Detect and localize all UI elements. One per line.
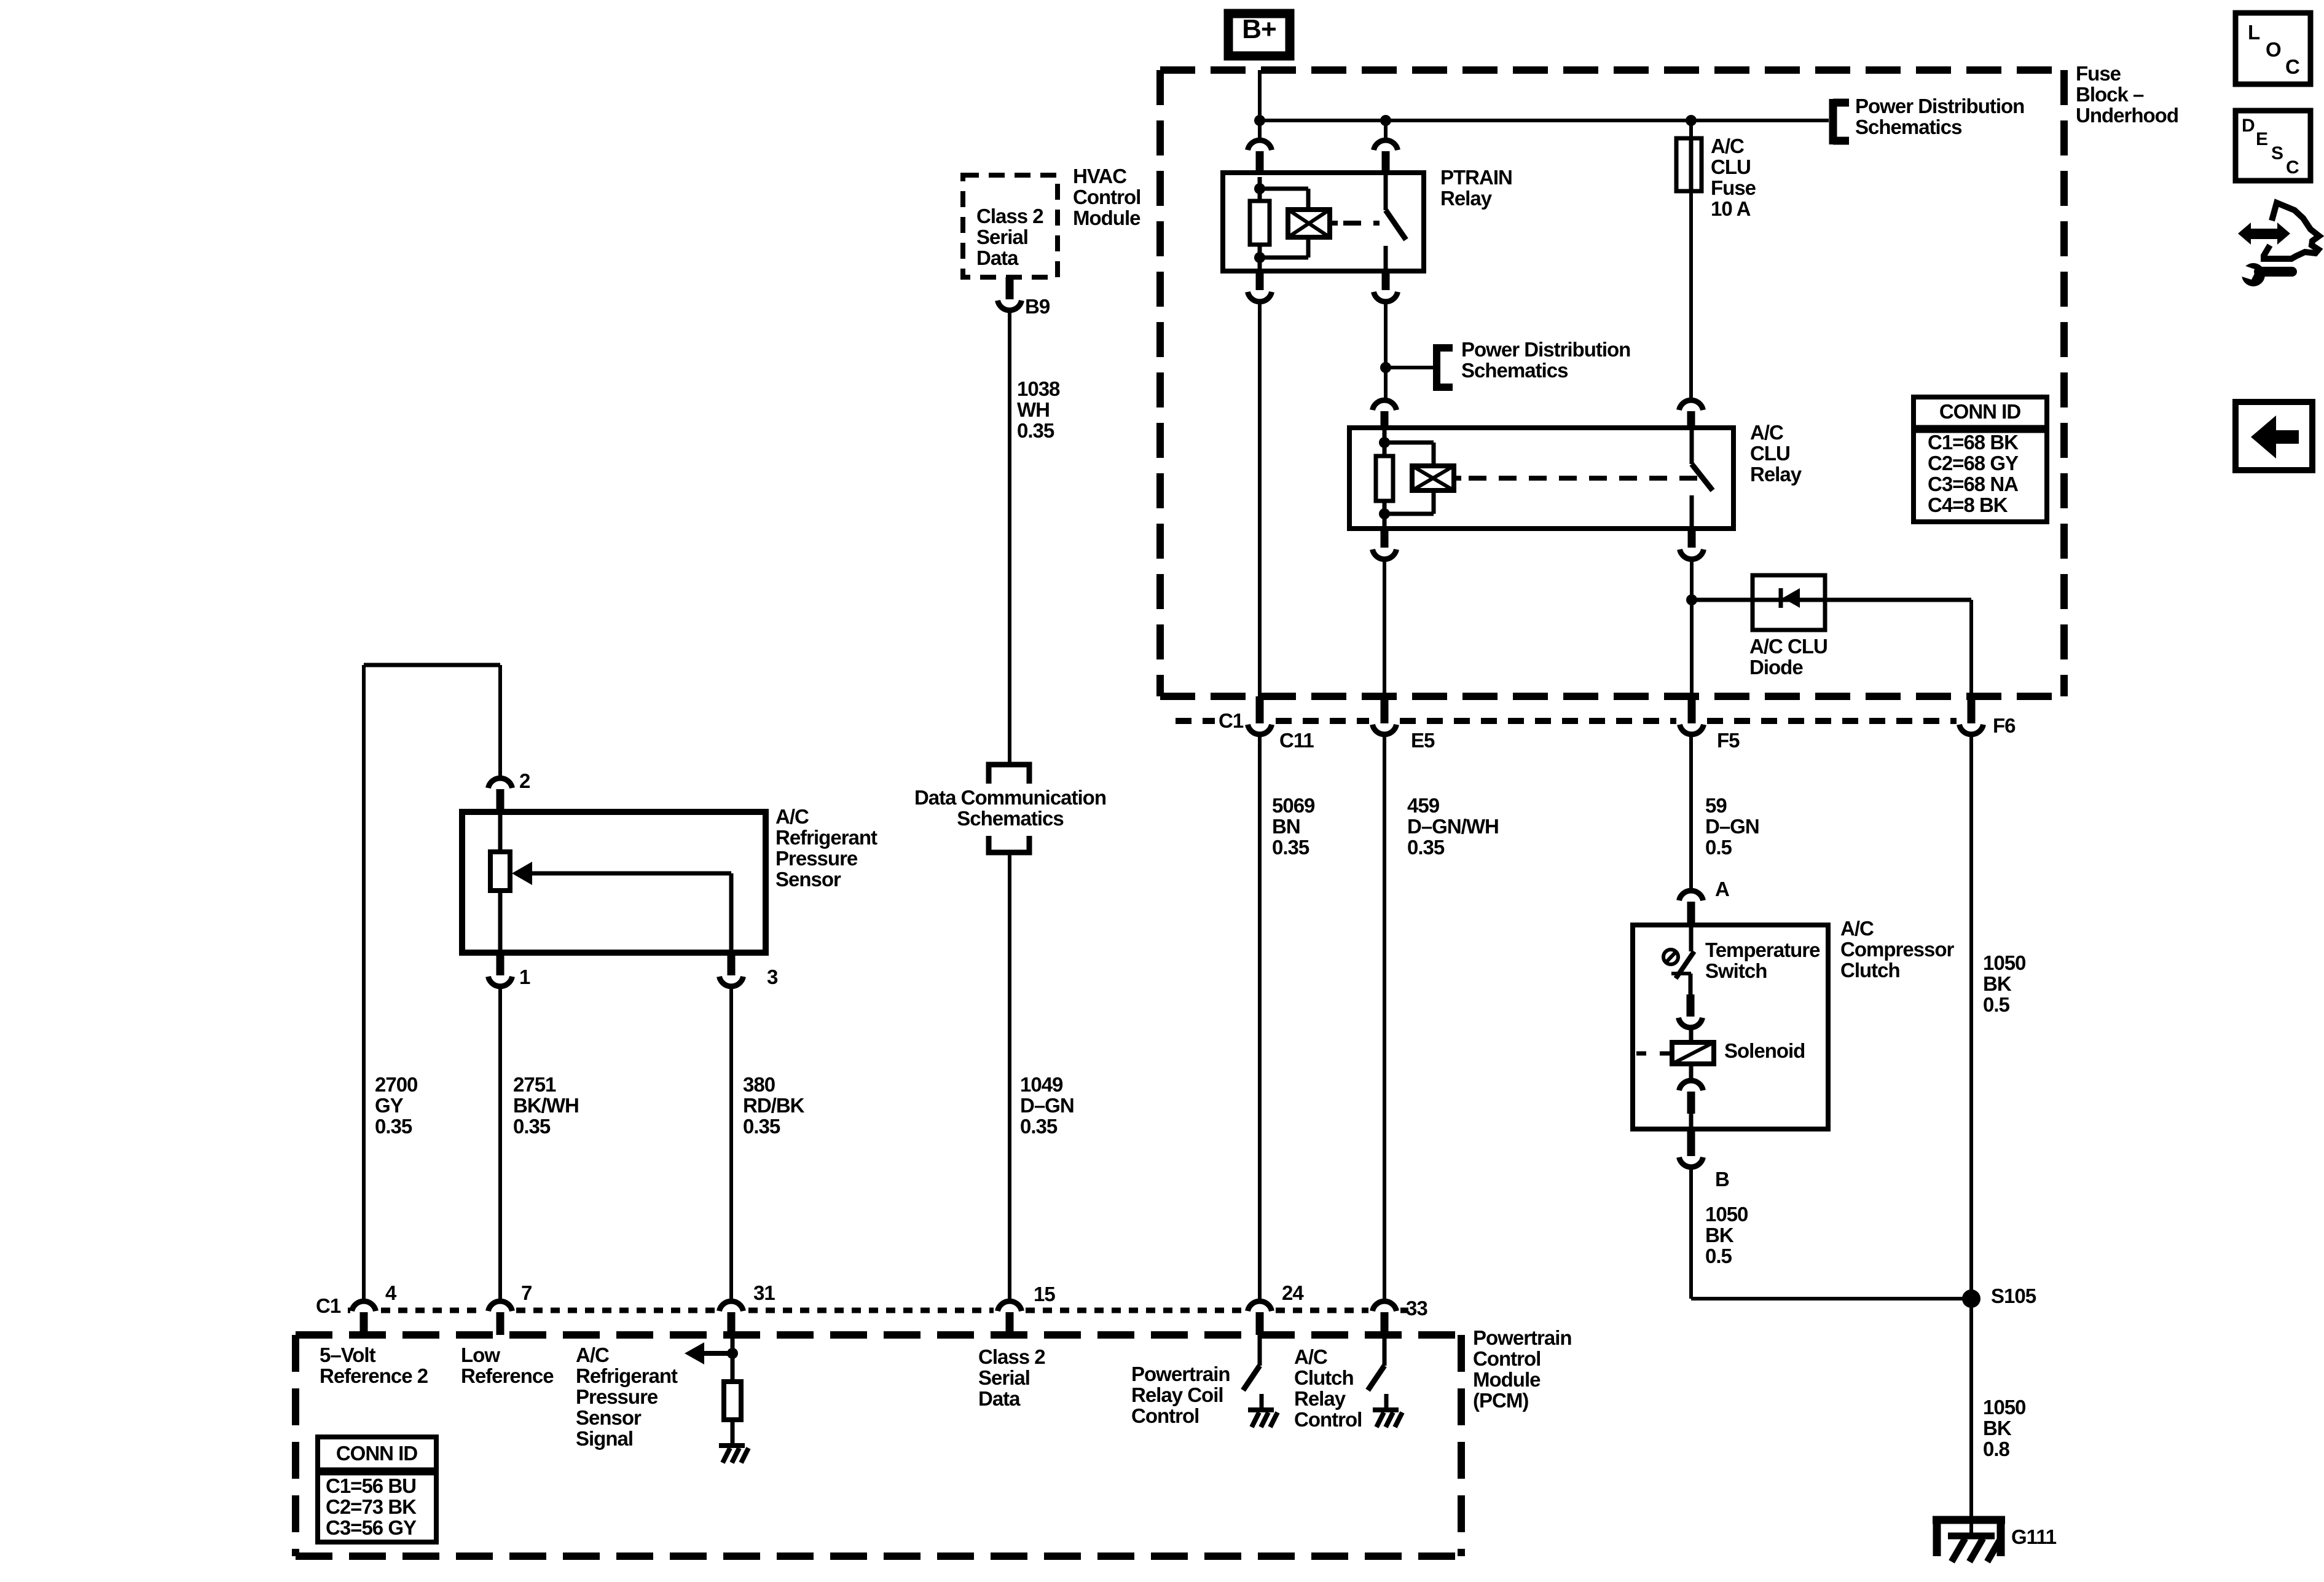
svg-text:Module: Module [1473, 1368, 1541, 1391]
svg-text:1050: 1050 [1705, 1203, 1748, 1226]
svg-text:Power Distribution: Power Distribution [1855, 95, 2024, 117]
svg-text:0.35: 0.35 [513, 1115, 551, 1138]
svg-text:Powertrain: Powertrain [1473, 1326, 1572, 1349]
label pin 7 [521, 1281, 532, 1304]
pcm internal: ground at pin31 resistor [719, 1446, 748, 1463]
svg-text:Relay: Relay [1440, 187, 1493, 210]
svg-text:E5: E5 [1411, 729, 1435, 752]
label pin 2 [519, 769, 530, 792]
solenoid coil [1636, 1025, 1714, 1079]
diode A/C CLU Diode [1753, 575, 1825, 630]
svg-text:3: 3 [767, 966, 778, 988]
relay K2 actuating dashed link [1454, 476, 1701, 481]
pcm internal: pin31 signal arrow [685, 1335, 738, 1382]
svg-text:Control: Control [1473, 1347, 1541, 1370]
wire K1 switch to A/C CLU relay coil [1384, 299, 1388, 398]
label 5069 BN 0.35 [1272, 794, 1315, 859]
wire 1038 WH [1008, 308, 1011, 765]
svg-text:0.5: 0.5 [1705, 836, 1732, 859]
svg-text:Schematics: Schematics [1855, 116, 1961, 138]
label Solenoid [1724, 1039, 1805, 1062]
svg-text:5–Volt: 5–Volt [320, 1344, 376, 1366]
icon back arrow box [2236, 402, 2312, 470]
label 1050 BK 0.8 [1983, 1396, 2025, 1460]
svg-text:CLU: CLU [1711, 155, 1751, 178]
svg-text:C11: C11 [1279, 729, 1314, 752]
connector line C1 of PCM (dotted) [348, 1308, 1408, 1313]
svg-text:Data: Data [978, 1387, 1021, 1410]
pcm internal: pull resistor [724, 1382, 741, 1446]
svg-text:G111: G111 [2011, 1525, 2057, 1548]
svg-text:Temperature: Temperature [1705, 939, 1820, 961]
connector terminal at CLU relay coil [1373, 400, 1397, 430]
label S105 [1991, 1285, 2036, 1307]
pcm internal: ground at pin33 driver [1373, 1394, 1402, 1427]
label E5 [1411, 729, 1435, 752]
svg-text:Block –: Block – [2076, 83, 2144, 106]
svg-text:2: 2 [519, 769, 530, 792]
label Fuse Block - Underhood [2076, 62, 2178, 127]
svg-text:A/C CLU: A/C CLU [1749, 635, 1827, 658]
label pin 15 [1034, 1283, 1055, 1305]
HVAC Class 2 Serial Data dashed box [963, 175, 1058, 277]
PCM dashed box [296, 1335, 1461, 1556]
svg-text:C2=73 BK: C2=73 BK [326, 1495, 417, 1518]
svg-text:Serial: Serial [976, 226, 1028, 248]
wire 1050 BK 0.5 (from F6) [1969, 732, 1973, 1299]
CONN ID table (PCM) [318, 1437, 436, 1542]
svg-text:Underhood: Underhood [2076, 104, 2178, 127]
svg-text:Compressor: Compressor [1840, 938, 1955, 961]
svg-text:S105: S105 [1991, 1285, 2036, 1307]
relay K2 coil circuit [1376, 428, 1434, 529]
connector terminal at CLU relay switch [1679, 400, 1703, 430]
svg-text:F6: F6 [1993, 714, 2016, 737]
label pin 3 [767, 966, 778, 988]
connector pin 24 [1248, 1301, 1272, 1335]
svg-text:S: S [2271, 143, 2283, 163]
label A/C CLU Relay [1750, 421, 1802, 486]
svg-text:0.35: 0.35 [1017, 419, 1054, 442]
svg-text:BN: BN [1272, 815, 1300, 838]
connector terminal inside clutch (upper) [1679, 994, 1703, 1028]
svg-text:B+: B+ [1242, 14, 1276, 44]
wire K2 switch to F5 [1690, 557, 1694, 696]
label Low Reference [461, 1344, 554, 1387]
wire to clutch case bottom [1689, 1114, 1694, 1129]
wire bus to A/C CLU fuse [1689, 120, 1693, 139]
node junction to Power Distribution tap [1380, 362, 1391, 373]
node bus junction at PTRAIN switch column [1380, 115, 1391, 126]
svg-text:59: 59 [1705, 794, 1727, 817]
svg-text:1038: 1038 [1017, 377, 1060, 400]
wire 1050 BK 0.8 [1969, 1299, 1973, 1535]
svg-text:24: 24 [1282, 1281, 1304, 1304]
node B+ battery feed [1228, 14, 1290, 56]
svg-text:4: 4 [385, 1281, 397, 1304]
svg-text:Control: Control [1073, 186, 1140, 208]
wire junction to diode [1692, 598, 1971, 602]
svg-text:O: O [2266, 38, 2281, 61]
svg-text:10 A: 10 A [1711, 197, 1751, 220]
relay K2 switch [1692, 428, 1713, 529]
label Class 2 Serial Data (PCM) [978, 1345, 1045, 1410]
CONN ID table (fuse block) [1914, 397, 2047, 522]
wire 1049 D-GN [1008, 855, 1011, 1299]
svg-text:B: B [1715, 1168, 1729, 1190]
svg-text:A/C: A/C [1840, 917, 1874, 940]
svg-text:0.35: 0.35 [1020, 1115, 1058, 1138]
svg-text:Class 2: Class 2 [976, 205, 1043, 227]
svg-text:0.8: 0.8 [1983, 1438, 2010, 1460]
label Power Distribution Schematics (top right bracket) [1833, 95, 2024, 144]
connector terminal at PTRAIN relay coil [1248, 140, 1272, 175]
connector line C1 of fuse block (dotted) [1176, 718, 1957, 724]
svg-text:459: 459 [1407, 794, 1440, 817]
svg-text:C: C [2285, 55, 2299, 78]
svg-text:380: 380 [743, 1073, 775, 1096]
svg-text:5069: 5069 [1272, 794, 1315, 817]
svg-text:33: 33 [1406, 1297, 1427, 1320]
svg-text:Diode: Diode [1749, 656, 1803, 679]
svg-text:Data Communication: Data Communication [914, 786, 1106, 809]
pcm internal: driver switch pin 24 [1243, 1335, 1260, 1390]
svg-text:C1=56 BU: C1=56 BU [326, 1474, 416, 1497]
connector terminal below K1 pin 87 [1374, 271, 1398, 302]
svg-text:D: D [2242, 116, 2255, 136]
potentiometer inside sensor [490, 812, 510, 953]
connector terminal below K1 pin 85 [1248, 271, 1272, 302]
svg-text:C1=68 BK: C1=68 BK [1928, 431, 2019, 454]
wire 5069 BN [1258, 732, 1262, 1299]
connector terminal at PTRAIN relay switch [1374, 140, 1398, 175]
relay K2 A/C CLU Relay box [1349, 428, 1733, 529]
svg-text:Schematics: Schematics [957, 807, 1063, 830]
sensor A/C Refrigerant Pressure Sensor box [462, 812, 766, 953]
svg-text:A/C: A/C [1294, 1345, 1327, 1368]
connector terminal A [1679, 891, 1703, 926]
relay K1 PTRAIN Relay box [1223, 173, 1424, 271]
wire bus tap to PTRAIN relay switch [1384, 120, 1388, 139]
label A/C Clutch Relay Control [1294, 1345, 1362, 1431]
label F5 [1717, 729, 1740, 752]
svg-text:C2=68 GY: C2=68 GY [1928, 452, 2019, 474]
svg-text:C3=56 GY: C3=56 GY [326, 1516, 417, 1539]
label B9 [1025, 295, 1050, 318]
label 1038 WH 0.35 [1017, 377, 1060, 442]
svg-text:BK: BK [1983, 1417, 2012, 1439]
svg-text:C1: C1 [1219, 709, 1244, 732]
svg-text:CLU: CLU [1750, 442, 1790, 465]
label pin 24 [1282, 1281, 1304, 1304]
wire B+ to bus [1258, 70, 1262, 120]
temperature switch [1663, 925, 1694, 994]
connector terminal pin 1 [489, 953, 512, 986]
connector cavity E5 [1373, 696, 1397, 734]
label Powertrain Control Module (PCM) [1473, 1326, 1572, 1412]
off-page connector Data Communication Schematics [914, 765, 1106, 852]
connector terminal B9 [998, 277, 1022, 310]
svg-text:Fuse: Fuse [2076, 62, 2121, 85]
svg-text:A/C: A/C [1711, 135, 1744, 157]
svg-text:C: C [2286, 157, 2299, 178]
label A/C Compressor Clutch [1840, 917, 1955, 982]
svg-text:CONN ID: CONN ID [336, 1442, 418, 1465]
wire 459 inside fuse block (K2 coil to E5) [1383, 557, 1386, 696]
relay K1 switch [1386, 173, 1406, 271]
wire 59 D-GN [1689, 732, 1693, 890]
connector terminal pin 2 [489, 778, 512, 809]
svg-text:C4=8 BK: C4=8 BK [1928, 494, 2008, 516]
svg-text:1050: 1050 [1983, 1396, 2025, 1419]
svg-text:Refrigerant: Refrigerant [775, 826, 877, 849]
svg-text:BK: BK [1983, 972, 2012, 995]
svg-text:Reference 2: Reference 2 [320, 1364, 428, 1387]
label pin 1 [519, 966, 530, 988]
node bus junction at fuse column [1686, 115, 1697, 126]
svg-text:RD/BK: RD/BK [743, 1094, 805, 1117]
connector terminal inside clutch (lower) [1679, 1080, 1703, 1114]
svg-text:A/C: A/C [576, 1344, 609, 1366]
svg-text:Fuse: Fuse [1711, 176, 1756, 199]
wire 1050 BK 0.5 (from B) [1691, 1165, 1971, 1299]
label 459 D-GN/WH 0.35 [1407, 794, 1499, 859]
svg-text:1050: 1050 [1983, 951, 2025, 974]
label pin B [1715, 1168, 1729, 1190]
label pin A [1715, 878, 1729, 900]
svg-text:D–GN: D–GN [1705, 815, 1759, 838]
label 5-Volt Reference 2 [320, 1344, 428, 1387]
svg-text:Refrigerant: Refrigerant [576, 1364, 678, 1387]
icon LOC box [2236, 13, 2310, 84]
label A/C CLU Fuse 10 A [1711, 135, 1756, 220]
wire 2751 BK/WH [498, 984, 502, 1299]
svg-text:Sensor: Sensor [775, 868, 841, 891]
svg-text:B9: B9 [1025, 295, 1050, 318]
connector terminal pin 3 [720, 953, 744, 986]
svg-text:0.5: 0.5 [1983, 993, 2010, 1016]
svg-text:Data: Data [976, 246, 1019, 269]
svg-text:Low: Low [461, 1344, 500, 1366]
svg-text:GY: GY [375, 1094, 404, 1117]
svg-text:Control: Control [1131, 1404, 1199, 1427]
relay K1 armature valve symbol [1288, 210, 1330, 237]
label A/C Refrigerant Pressure Sensor [775, 805, 877, 891]
svg-text:0.35: 0.35 [743, 1115, 780, 1138]
svg-text:0.35: 0.35 [375, 1115, 412, 1138]
svg-text:0.35: 0.35 [1272, 836, 1309, 859]
label 380 RD/BK 0.35 [743, 1073, 805, 1138]
svg-text:A: A [1715, 878, 1729, 900]
node bus junction at PTRAIN coil [1254, 115, 1265, 126]
svg-text:Powertrain: Powertrain [1131, 1363, 1230, 1385]
wire 380 RD/BK [729, 984, 733, 1299]
label pin 33 [1406, 1297, 1427, 1320]
label Power Distribution Schematics (middle bracket) [1386, 338, 1630, 391]
node splice S105 [1962, 1289, 1981, 1308]
svg-text:F5: F5 [1717, 729, 1740, 752]
pcm internal: driver switch pin 33 [1368, 1335, 1384, 1390]
connector pin 33 [1373, 1301, 1397, 1335]
wire bus B+ feed [1260, 119, 1829, 122]
svg-text:Control: Control [1294, 1408, 1362, 1431]
connector terminal below K2 switch [1680, 529, 1704, 559]
relay K1 actuating dashed link [1330, 221, 1380, 226]
pcm internal: ground at pin24 driver [1248, 1394, 1278, 1427]
svg-text:Sensor: Sensor [576, 1406, 642, 1429]
svg-text:BK: BK [1705, 1224, 1734, 1246]
label C1 [1219, 709, 1244, 732]
svg-text:Signal: Signal [576, 1427, 633, 1450]
svg-text:PTRAIN: PTRAIN [1440, 166, 1512, 189]
node junction at diode tap [1686, 594, 1697, 605]
svg-text:Relay: Relay [1294, 1387, 1346, 1410]
svg-text:A/C: A/C [775, 805, 809, 828]
svg-text:A/C: A/C [1750, 421, 1783, 444]
wire 459 D-GN/WH [1383, 732, 1386, 1299]
fuse A/C CLU Fuse 10A [1676, 138, 1702, 191]
connector C1 cavity C11 [1248, 696, 1272, 734]
connector cavity F6 [1960, 696, 1984, 734]
label A/C CLU Diode [1749, 635, 1827, 679]
wire diode to F6 [1969, 600, 1973, 696]
svg-text:Power Distribution: Power Distribution [1461, 338, 1630, 361]
svg-text:Pressure: Pressure [775, 847, 858, 870]
svg-text:7: 7 [521, 1281, 532, 1304]
icon vehicle replace (arrow + outline + wrench) [2238, 203, 2319, 286]
svg-text:0.35: 0.35 [1407, 836, 1445, 859]
connector terminal B [1679, 1129, 1703, 1167]
potentiometer wiper arrow [512, 862, 731, 953]
label Temperature Switch [1705, 939, 1820, 982]
svg-text:2751: 2751 [513, 1073, 556, 1096]
svg-text:15: 15 [1034, 1283, 1055, 1305]
svg-text:CONN ID: CONN ID [1939, 400, 2021, 423]
connector terminal below K2 coil (to E5) [1373, 529, 1397, 559]
connector cavity F5 [1680, 696, 1704, 734]
wire 5069 inside fuse block (K1 coil to C11) [1258, 299, 1262, 696]
label G111 [2011, 1525, 2057, 1548]
svg-text:Pressure: Pressure [576, 1385, 658, 1408]
svg-text:Relay Coil: Relay Coil [1131, 1383, 1223, 1406]
svg-text:Schematics: Schematics [1461, 359, 1568, 382]
connector pin 7 [489, 1301, 512, 1335]
svg-text:BK/WH: BK/WH [513, 1094, 579, 1117]
wire fuse to A/C CLU relay switch [1689, 191, 1693, 398]
svg-text:HVAC: HVAC [1073, 165, 1126, 187]
wire 5v loop (pin4 to sensor pin 2) [364, 665, 500, 1299]
icon DESC box [2236, 111, 2310, 181]
svg-text:Solenoid: Solenoid [1724, 1039, 1805, 1062]
svg-text:(PCM): (PCM) [1473, 1389, 1528, 1412]
label pin 4 [385, 1281, 397, 1304]
label HVAC Control Module [1073, 165, 1140, 229]
label 1050 BK 0.5 (left) [1705, 1203, 1748, 1267]
label 2700 GY 0.35 [375, 1073, 417, 1138]
label C1 (PCM) [316, 1294, 341, 1317]
fuse block underhood dashed box [1160, 70, 2064, 696]
label 1050 BK 0.5 (right) [1983, 951, 2025, 1016]
svg-text:Reference: Reference [461, 1364, 554, 1387]
label pin 31 [753, 1281, 775, 1304]
svg-text:0.5: 0.5 [1705, 1245, 1732, 1267]
svg-text:31: 31 [753, 1281, 775, 1304]
svg-text:E: E [2256, 129, 2267, 149]
svg-text:Clutch: Clutch [1840, 959, 1900, 982]
wire bus to PTRAIN relay pin 86 [1258, 120, 1262, 139]
svg-text:C3=68 NA: C3=68 NA [1928, 473, 2018, 495]
svg-text:Class 2: Class 2 [978, 1345, 1045, 1368]
svg-text:C1: C1 [316, 1294, 341, 1317]
svg-text:WH: WH [1017, 398, 1050, 421]
svg-text:Clutch: Clutch [1294, 1366, 1354, 1389]
relay K2 armature valve symbol [1412, 466, 1454, 490]
svg-text:2700: 2700 [375, 1073, 417, 1096]
svg-text:1049: 1049 [1020, 1073, 1063, 1096]
svg-text:L: L [2248, 21, 2260, 44]
ground G111 [1933, 1516, 2005, 1562]
label 59 D-GN 0.5 [1705, 794, 1759, 859]
label C11 [1279, 729, 1314, 752]
label F6 [1993, 714, 2016, 737]
connector pin 4 [352, 1301, 376, 1335]
svg-text:Relay: Relay [1750, 463, 1802, 486]
label Powertrain Relay Coil Control [1131, 1363, 1230, 1427]
svg-text:D–GN/WH: D–GN/WH [1407, 815, 1499, 838]
relay K1 coil circuit [1250, 177, 1308, 271]
svg-text:Switch: Switch [1705, 959, 1767, 982]
label A/C Refrigerant Pressure Sensor Signal [576, 1344, 678, 1450]
label 2751 BK/WH 0.35 [513, 1073, 579, 1138]
svg-text:Serial: Serial [978, 1366, 1030, 1389]
label PTRAIN Relay [1440, 166, 1512, 210]
connector pin 31 [720, 1301, 744, 1335]
svg-text:Module: Module [1073, 207, 1140, 229]
svg-text:1: 1 [519, 966, 530, 988]
svg-text:D–GN: D–GN [1020, 1094, 1074, 1117]
A/C Compressor Clutch box [1633, 925, 1828, 1129]
connector pin 15 [998, 1301, 1022, 1335]
label 1049 D-GN 0.35 [1020, 1073, 1074, 1138]
